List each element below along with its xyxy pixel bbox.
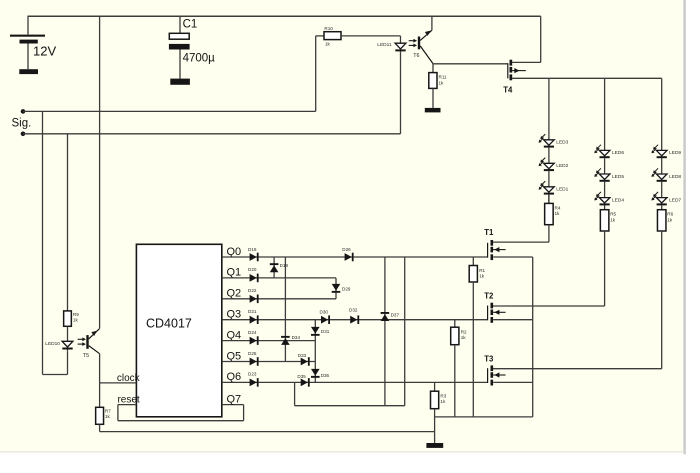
resistor R2 1k xyxy=(451,320,467,417)
svg-text:T2: T2 xyxy=(484,292,494,301)
wire vertical D37 branch xyxy=(384,257,386,406)
wire Q3 row xyxy=(222,319,488,321)
wire Sig2 down to R9 xyxy=(67,134,69,311)
svg-text:Q2: Q2 xyxy=(227,288,242,300)
wire Q4 row xyxy=(222,340,315,342)
svg-text:D35: D35 xyxy=(297,374,306,379)
wire T4 source LED bus xyxy=(512,77,662,79)
svg-text:LED8: LED8 xyxy=(669,174,681,180)
svg-text:T3: T3 xyxy=(484,354,494,363)
wire reset to Q7 loop xyxy=(118,405,244,421)
svg-text:D34: D34 xyxy=(292,335,301,340)
wire T2 source xyxy=(493,319,533,321)
svg-text:D30: D30 xyxy=(320,309,329,314)
svg-text:R2: R2 xyxy=(461,329,467,334)
svg-text:LED4: LED4 xyxy=(612,197,624,203)
wire T5 emitter to clock node xyxy=(99,354,101,383)
svg-text:D32: D32 xyxy=(349,308,358,313)
pin label Q6 xyxy=(227,371,242,383)
svg-text:D29: D29 xyxy=(342,287,351,292)
wire Sig1 up to R10 xyxy=(316,36,324,112)
svg-text:LED11: LED11 xyxy=(377,42,392,48)
svg-text:T6: T6 xyxy=(413,53,419,59)
resistor R1 1k xyxy=(469,257,485,417)
svg-text:CD4017: CD4017 xyxy=(146,316,192,330)
IC U1 CD4017 xyxy=(136,244,221,416)
resistor R11 1k xyxy=(429,64,447,108)
diode D24 xyxy=(248,330,259,345)
svg-text:Q4: Q4 xyxy=(227,329,242,341)
wire T6 collector to rail xyxy=(431,16,433,30)
svg-text:R6: R6 xyxy=(667,212,673,217)
pin label Q7 xyxy=(227,393,242,405)
svg-text:Q6: Q6 xyxy=(227,371,242,383)
svg-text:D20: D20 xyxy=(248,267,257,272)
svg-text:D22: D22 xyxy=(248,288,257,293)
pin label Q4 xyxy=(227,329,242,341)
wire R9 to LED10 xyxy=(67,326,69,341)
wire vertical D31/D36 branch xyxy=(314,320,316,383)
svg-text:LED1: LED1 xyxy=(556,187,568,193)
svg-text:LED2: LED2 xyxy=(556,163,568,169)
svg-text:R9: R9 xyxy=(73,312,79,317)
diode D34 xyxy=(281,335,300,345)
battery 12V xyxy=(10,16,56,69)
LED3 xyxy=(539,134,569,163)
svg-text:D23: D23 xyxy=(248,372,257,377)
resistor R7 1k (clock pulldown) xyxy=(96,383,112,432)
svg-text:1k: 1k xyxy=(667,217,673,222)
wire R4 to T1 drain xyxy=(492,225,549,242)
svg-text:1k: 1k xyxy=(461,335,467,340)
svg-text:1k: 1k xyxy=(73,318,79,323)
svg-text:T4: T4 xyxy=(503,86,513,95)
svg-text:LED10: LED10 xyxy=(45,341,60,347)
transistor T1 (N-MOSFET) xyxy=(484,228,505,260)
wire clock xyxy=(100,373,141,384)
transistor T3 (N-MOSFET) xyxy=(484,354,505,385)
wire reset xyxy=(117,394,139,405)
wire Sig line 2 xyxy=(23,133,401,135)
LED8 xyxy=(651,168,681,197)
wire R10 to LED11 xyxy=(341,36,401,43)
svg-text:D26: D26 xyxy=(342,247,351,252)
diode D35 xyxy=(297,374,309,387)
pin label Q5 xyxy=(227,350,242,362)
svg-text:4700µ: 4700µ xyxy=(183,53,216,65)
wire +12V top rail xyxy=(28,15,541,17)
ground (C1) xyxy=(170,79,190,85)
resistor R5 1k xyxy=(600,210,616,231)
svg-text:Q3: Q3 xyxy=(227,309,242,321)
svg-text:R7: R7 xyxy=(105,408,111,413)
svg-text:D19: D19 xyxy=(248,247,257,252)
svg-text:R11: R11 xyxy=(439,75,448,80)
svg-text:R4: R4 xyxy=(555,205,561,210)
svg-text:Q7: Q7 xyxy=(227,393,242,405)
svg-text:1k: 1k xyxy=(555,211,561,216)
wire bus to LED3 xyxy=(548,78,550,140)
LED11 (optocoupler diode) xyxy=(377,42,406,52)
LED4 xyxy=(594,192,624,221)
diode D19 xyxy=(248,247,259,261)
wire Sig1 down-left branch xyxy=(43,111,68,374)
svg-text:LED6: LED6 xyxy=(612,150,624,156)
capacitor C1 4700µ xyxy=(169,16,215,78)
svg-text:1k: 1k xyxy=(479,274,485,279)
svg-text:D31: D31 xyxy=(321,329,330,334)
svg-text:C1: C1 xyxy=(183,19,198,31)
ground (battery) xyxy=(19,69,38,74)
diode D18 (Q0-Q1) xyxy=(270,257,289,278)
diode D29 (Q1-Q2) xyxy=(332,278,351,299)
wire bus to LED9 xyxy=(661,78,663,150)
transistor T6 (photo) xyxy=(409,30,433,63)
diode D33 xyxy=(298,353,310,366)
diode D21 xyxy=(248,309,259,324)
svg-text:D24: D24 xyxy=(248,330,257,335)
svg-text:Q0: Q0 xyxy=(227,246,242,258)
svg-text:1k: 1k xyxy=(610,217,616,222)
wire R5 to T2 drain xyxy=(492,231,605,306)
node Sig (input) xyxy=(12,109,32,136)
diode D30 xyxy=(320,309,331,324)
pin label Q2 xyxy=(227,288,242,300)
wire T1 source xyxy=(493,256,533,258)
svg-text:D21: D21 xyxy=(248,309,257,314)
LED2 xyxy=(539,158,569,187)
wire T6 emitter node to T4 gate xyxy=(433,63,508,65)
transistor T2 (N-MOSFET) xyxy=(484,292,505,323)
wire R7 to ground node xyxy=(100,431,435,433)
svg-text:R3: R3 xyxy=(440,393,446,398)
wire Q2 row xyxy=(222,298,336,300)
wire R6 to T3 drain xyxy=(492,231,662,369)
diode D37 xyxy=(381,312,400,321)
diode D22 xyxy=(248,288,259,303)
svg-text:LED9: LED9 xyxy=(669,150,681,156)
wire Q6 row xyxy=(222,381,488,383)
svg-text:D18: D18 xyxy=(280,263,289,268)
svg-text:1k: 1k xyxy=(325,42,331,47)
resistor R6 1k xyxy=(657,210,673,231)
diode D26 xyxy=(342,247,353,261)
wire bus to LED6 xyxy=(604,78,606,150)
svg-text:clock: clock xyxy=(117,373,141,384)
svg-text:R5: R5 xyxy=(610,212,616,217)
svg-text:T1: T1 xyxy=(484,228,494,237)
diode D25 xyxy=(248,351,259,366)
ground (main) xyxy=(426,443,443,448)
svg-text:Q1: Q1 xyxy=(227,267,242,279)
pin label Q1 xyxy=(227,267,242,279)
wire T3 source xyxy=(493,381,533,383)
resistor R9 1k xyxy=(64,311,80,326)
pin label Q0 xyxy=(227,246,242,258)
LED10 (optocoupler diode) xyxy=(45,341,73,351)
wire bottom bus xyxy=(435,416,533,418)
transistor T5 (photo) xyxy=(78,329,100,359)
pin label Q3 xyxy=(227,309,242,321)
svg-text:1k: 1k xyxy=(439,80,445,85)
svg-text:Sig.: Sig. xyxy=(12,118,32,130)
resistor R10 1k xyxy=(324,26,341,47)
ground (R11) xyxy=(425,108,441,113)
wire vertical Q0 right branch xyxy=(404,257,406,406)
wire LED11 to Sig2 xyxy=(400,51,402,133)
diode D23 xyxy=(248,372,259,387)
transistor T4 (P-MOSFET) xyxy=(503,60,526,95)
svg-text:reset: reset xyxy=(117,394,139,405)
wire rail to T5 collector xyxy=(99,16,101,328)
svg-text:T5: T5 xyxy=(83,353,89,359)
resistor R4 1k xyxy=(545,195,561,225)
diode D36 xyxy=(311,369,330,378)
svg-text:LED7: LED7 xyxy=(669,197,681,203)
LED6 xyxy=(594,145,624,174)
diode D20 xyxy=(248,267,259,282)
LED1 xyxy=(539,181,569,203)
svg-text:R1: R1 xyxy=(479,268,485,273)
wire Q7-level link row xyxy=(295,382,405,405)
svg-text:D36: D36 xyxy=(321,373,330,378)
svg-text:D37: D37 xyxy=(391,312,400,317)
svg-text:D25: D25 xyxy=(248,351,257,356)
wire vertical Q0-Q5 (D34 branch) xyxy=(284,257,286,362)
svg-text:1k: 1k xyxy=(105,414,111,419)
svg-text:1k: 1k xyxy=(440,399,446,404)
svg-text:D33: D33 xyxy=(298,353,307,358)
svg-text:Q5: Q5 xyxy=(227,350,242,362)
svg-text:R10: R10 xyxy=(324,26,333,31)
wire source bus vertical xyxy=(532,257,534,417)
resistor R3 1k xyxy=(431,382,447,443)
svg-text:12V: 12V xyxy=(33,43,56,58)
LED9 xyxy=(651,145,681,174)
diode D32 xyxy=(349,308,359,324)
wire Q1 row xyxy=(222,277,336,279)
svg-text:LED3: LED3 xyxy=(556,140,568,146)
svg-text:LED5: LED5 xyxy=(612,174,624,180)
wire Q5 row xyxy=(222,361,315,363)
wire T4 drain to rail xyxy=(512,16,541,62)
wire Sig line 1 xyxy=(23,110,316,112)
wire Q0 row xyxy=(222,256,488,258)
diode D31 xyxy=(311,327,330,336)
LED7 xyxy=(651,192,681,221)
LED5 xyxy=(594,168,624,197)
